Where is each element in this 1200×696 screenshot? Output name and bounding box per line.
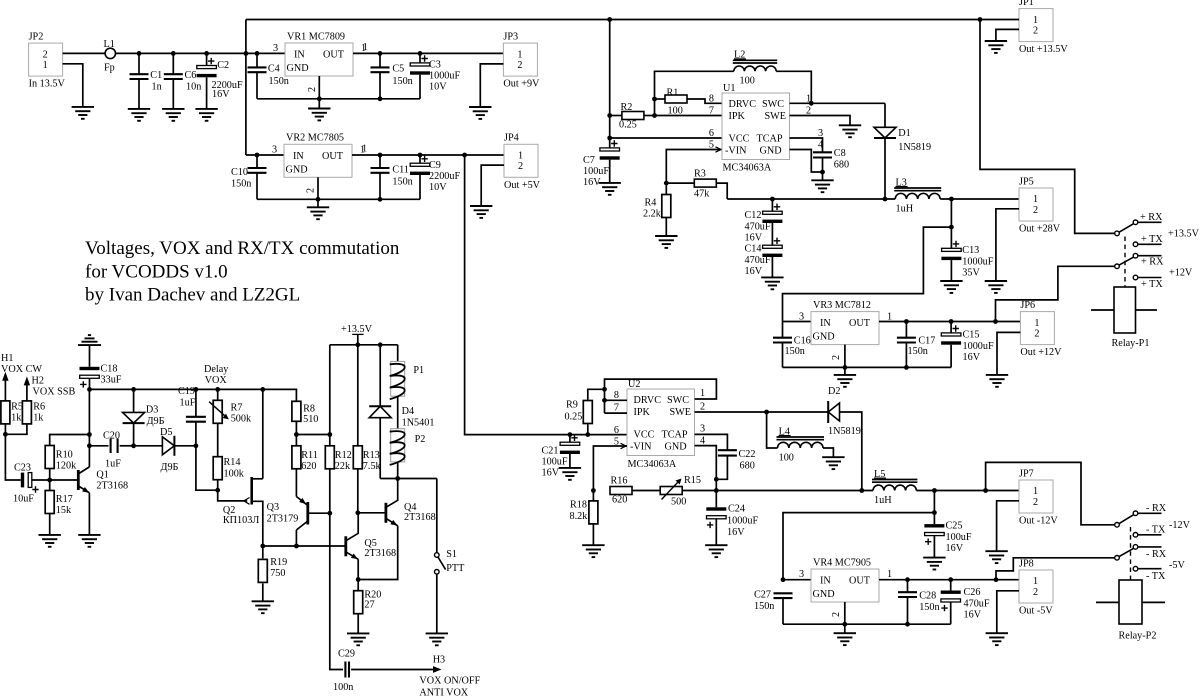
svg-text:КП103Л: КП103Л: [223, 515, 259, 526]
svg-text:Д9Б: Д9Б: [147, 416, 165, 427]
svg-text:16V: 16V: [964, 610, 982, 621]
svg-text:C13: C13: [962, 245, 979, 256]
svg-text:10V: 10V: [429, 182, 447, 193]
wire +13.5V VOX bar: [330, 344, 398, 346]
wire D5 node down: [196, 446, 218, 490]
svg-text:In 13.5V: In 13.5V: [29, 79, 66, 90]
wire D5 to node: [174, 445, 196, 447]
svg-text:Fp: Fp: [104, 63, 115, 74]
svg-text:SWE: SWE: [670, 407, 692, 418]
svg-text:IN: IN: [820, 318, 831, 329]
connector JP8: [1019, 558, 1053, 616]
svg-text:DRVC: DRVC: [729, 99, 757, 110]
capacitor C19 1uF: [178, 386, 206, 446]
svg-text:500k: 500k: [231, 414, 252, 425]
wire R16-R15: [632, 490, 660, 492]
wire +13.5V feed to switch: [980, 20, 1115, 234]
svg-text:1uH: 1uH: [874, 495, 892, 506]
svg-text:IPK: IPK: [634, 407, 651, 418]
svg-text:-VIN: -VIN: [630, 442, 652, 453]
capacitor C15 1000uF 16V: [941, 322, 994, 368]
wire C23 to Q1 base: [32, 479, 50, 481]
svg-text:DRVC: DRVC: [634, 395, 662, 406]
svg-text:C7: C7: [583, 155, 595, 166]
label - RX 4: [1146, 549, 1167, 560]
capacitor C12 470uF 16V: [745, 199, 783, 244]
svg-text:R1: R1: [667, 87, 679, 98]
svg-text:D2: D2: [828, 386, 840, 397]
capacitor C21 100uF 16V: [542, 435, 580, 479]
svg-text:Relay-P2: Relay-P2: [1119, 631, 1157, 642]
svg-text:JP5: JP5: [1019, 176, 1034, 187]
ground SWE U1: [839, 125, 861, 137]
ground C6: [162, 109, 184, 121]
wire +13.5V VOX stem: [357, 334, 359, 344]
svg-text:C21: C21: [542, 446, 559, 457]
wire VR3 pin2 gnd: [831, 345, 845, 375]
svg-text:VR4 MC7905: VR4 MC7905: [813, 557, 871, 568]
svg-text:R17: R17: [56, 494, 73, 505]
svg-text:10V: 10V: [429, 82, 447, 93]
svg-text:500: 500: [671, 497, 686, 508]
pin 1 label VR1: [363, 42, 368, 53]
label +13.5V: [1168, 229, 1200, 240]
svg-text:2: 2: [43, 49, 48, 60]
wire VR3 out +12V: [879, 321, 1020, 323]
resistor R3 47k: [666, 169, 727, 200]
resistor R19 750: [258, 546, 287, 601]
wire U2 pin4 GND: [695, 446, 717, 491]
wire JP6 pin2 to ground: [997, 332, 1020, 375]
resistor R13 7.5k: [353, 345, 381, 513]
svg-text:C19: C19: [178, 386, 195, 397]
label + RX 1: [1140, 212, 1163, 223]
ground R19: [252, 601, 274, 613]
svg-text:GND: GND: [760, 146, 782, 157]
ground L4: [822, 457, 844, 469]
diode D3 D9B: [123, 389, 165, 445]
svg-text:VOX ON/OFF: VOX ON/OFF: [419, 676, 480, 687]
svg-text:C3: C3: [429, 60, 441, 71]
capacitor C17 150n: [897, 322, 935, 368]
wire -12V rail right: [916, 490, 1019, 492]
svg-text:MC34063A: MC34063A: [628, 459, 677, 470]
svg-text:VOX SSB: VOX SSB: [33, 387, 76, 398]
wire VR2 input: [246, 154, 284, 156]
label - TX 4: [1146, 571, 1166, 582]
svg-text:-VIN: -VIN: [725, 146, 747, 157]
svg-text:470uF: 470uF: [745, 255, 771, 266]
svg-text:33uF: 33uF: [101, 374, 122, 385]
wire VCC pin6: [610, 137, 722, 139]
svg-text:OUT: OUT: [323, 50, 345, 61]
svg-text:R16: R16: [611, 476, 628, 487]
wire -12V rail: [682, 490, 873, 492]
relay coil P1: [390, 345, 424, 429]
connector JP4: [504, 133, 541, 191]
svg-text:C11: C11: [392, 164, 409, 175]
svg-text:C5: C5: [392, 64, 404, 75]
svg-text:PTT: PTT: [446, 563, 465, 574]
svg-text:C28: C28: [919, 591, 936, 602]
wire R8 to +13.5V riser: [296, 434, 329, 436]
wire SWC pin1: [790, 102, 886, 104]
pin labels U1 right: [806, 93, 823, 150]
svg-text:1uF: 1uF: [180, 397, 196, 408]
svg-text:for VCODDS v1.0: for VCODDS v1.0: [85, 262, 228, 283]
svg-text:150n: 150n: [231, 179, 251, 190]
svg-text:C26: C26: [964, 587, 981, 598]
capacitor C22 680: [716, 449, 755, 480]
svg-text:100: 100: [740, 76, 755, 87]
resistor R20 27: [354, 580, 382, 634]
svg-text:C10: C10: [231, 167, 248, 178]
connector JP6: [1020, 300, 1062, 358]
capacitor C1 1n: [130, 53, 163, 109]
wire U2 pin3 TCAP: [695, 434, 728, 450]
wire P2 bottom node: [380, 478, 437, 480]
regulator VR1 MC7809: [273, 31, 366, 76]
capacitor C9 2200uF 10V: [410, 155, 460, 199]
svg-text:- RX: - RX: [1146, 503, 1167, 514]
wire Q4 base: [358, 512, 386, 514]
regulator VR2 MC7805: [272, 133, 365, 178]
svg-text:D4: D4: [402, 406, 414, 417]
svg-text:6: 6: [709, 128, 714, 139]
pin labels U1 left: [709, 93, 714, 150]
svg-text:1N5819: 1N5819: [828, 426, 861, 437]
svg-text:620: 620: [612, 495, 627, 506]
diode D2 1N5819: [828, 386, 861, 437]
capacitor C4 150n: [248, 53, 289, 98]
svg-text:150n: 150n: [269, 76, 289, 87]
resistor R16 620: [610, 476, 632, 506]
svg-text:R6: R6: [33, 402, 45, 413]
resistor R6 1k: [22, 401, 45, 424]
label -12V: [1169, 520, 1191, 531]
svg-text:470uF: 470uF: [745, 222, 771, 233]
svg-text:6: 6: [614, 425, 619, 436]
svg-text:2: 2: [700, 401, 705, 412]
connector JP3: [503, 32, 540, 90]
transistor Q4 2T3168: [358, 479, 436, 580]
svg-text:C2: C2: [217, 60, 229, 71]
svg-text:100n: 100n: [333, 682, 353, 693]
svg-text:SWC: SWC: [667, 395, 689, 406]
label - RX 3: [1146, 503, 1167, 514]
svg-text:H3: H3: [433, 655, 445, 666]
svg-text:10n: 10n: [186, 82, 201, 93]
svg-text:1: 1: [700, 388, 705, 399]
svg-text:0.25: 0.25: [619, 120, 637, 131]
svg-text:16V: 16V: [212, 89, 230, 100]
svg-text:1: 1: [518, 151, 523, 162]
svg-text:C12: C12: [745, 210, 762, 221]
ground S1: [426, 633, 448, 645]
wire +13.5V rail: [116, 52, 286, 54]
connector JP1: [1019, 0, 1068, 55]
svg-text:16V: 16V: [745, 233, 763, 244]
resistor R18 8.2k: [570, 491, 598, 546]
svg-text:Out +9V: Out +9V: [503, 79, 540, 90]
svg-text:1: 1: [1033, 576, 1038, 587]
svg-text:VR3 MC7812: VR3 MC7812: [813, 300, 871, 311]
svg-text:IN: IN: [820, 576, 831, 587]
svg-text:1: 1: [1033, 486, 1038, 497]
svg-text:16V: 16V: [542, 468, 560, 479]
ground JP8: [986, 633, 1008, 645]
transistor Q2 KP103L: [223, 477, 263, 546]
svg-text:4: 4: [700, 435, 705, 446]
wire U2 SWE pin2: [695, 411, 829, 413]
svg-text:C14: C14: [745, 244, 762, 255]
svg-text:1uH: 1uH: [896, 203, 914, 214]
wire -12V feed to switch: [986, 462, 1115, 524]
svg-text:1000uF: 1000uF: [962, 256, 993, 267]
svg-text:Out +28V: Out +28V: [1019, 224, 1061, 235]
svg-text:R7: R7: [231, 403, 243, 414]
svg-text:1000uF: 1000uF: [727, 516, 758, 527]
inductor L5 1uH: [872, 469, 917, 506]
capacitor C20 1uF: [89, 430, 133, 469]
svg-text:16V: 16V: [963, 352, 981, 363]
input H1 VOX CW: [1, 353, 42, 401]
svg-text:750: 750: [270, 568, 285, 579]
svg-text:16V: 16V: [946, 543, 964, 554]
svg-text:15k: 15k: [56, 505, 72, 516]
svg-text:C6: C6: [185, 70, 197, 81]
svg-text:1: 1: [43, 60, 48, 71]
ground R20: [347, 633, 369, 645]
wire -5V feed to switch: [996, 558, 1115, 580]
wire U2 pin8 stub: [605, 399, 628, 401]
ground C2: [195, 109, 217, 121]
svg-text:3: 3: [273, 43, 278, 54]
regulator VR3 MC7812: [799, 300, 892, 345]
wire VR1 ground rail: [257, 98, 420, 100]
svg-text:SWE: SWE: [765, 111, 787, 122]
svg-text:C1: C1: [150, 70, 162, 81]
resistor R8 510: [292, 401, 318, 434]
svg-text:VR2 MC7805: VR2 MC7805: [286, 133, 344, 144]
svg-text:1: 1: [517, 49, 522, 60]
svg-text:3: 3: [799, 312, 804, 323]
wire +5V feed to U2: [465, 155, 627, 435]
svg-text:35V: 35V: [962, 267, 980, 278]
svg-text:2: 2: [518, 161, 523, 172]
wire GND pin4: [790, 150, 823, 173]
svg-text:2: 2: [831, 355, 842, 360]
inductor L3 1uH: [894, 177, 941, 214]
svg-text:IN: IN: [294, 50, 305, 61]
ground C13: [940, 281, 962, 293]
svg-text:1: 1: [1033, 15, 1038, 26]
capacitor C18 33uF: [80, 345, 122, 389]
svg-text:680: 680: [740, 460, 755, 471]
svg-text:Q1: Q1: [96, 469, 108, 480]
svg-text:H2: H2: [32, 376, 44, 387]
svg-text:P1: P1: [413, 365, 424, 376]
svg-text:1N5819: 1N5819: [898, 142, 931, 153]
capacitor C7 100uF 16V: [583, 140, 620, 188]
wire JP8 pin2 to ground: [997, 591, 1019, 633]
relay coil P2: [390, 429, 426, 479]
capacitor C13 1000uF 35V: [941, 199, 993, 281]
svg-text:- RX: - RX: [1146, 549, 1167, 560]
wire VR2 out +5V: [352, 154, 504, 156]
output H3: [351, 655, 480, 696]
ground JP2: [72, 107, 94, 119]
svg-text:- TX: - TX: [1146, 571, 1166, 582]
switch +12V RX/TX: [1115, 253, 1162, 279]
svg-text:C18: C18: [101, 363, 118, 374]
svg-text:OUT: OUT: [322, 151, 344, 162]
svg-text:2200uF: 2200uF: [429, 171, 460, 182]
title text: [85, 238, 400, 306]
svg-text:C15: C15: [963, 329, 980, 340]
IC U2 MC34063A: [627, 379, 695, 470]
wire L2 left branch: [655, 71, 734, 115]
relay Relay-P2: [1096, 580, 1165, 642]
svg-text:H1: H1: [1, 353, 13, 364]
svg-text:U2: U2: [628, 379, 640, 390]
ground C21: [559, 468, 581, 480]
svg-text:-5V: -5V: [1169, 560, 1185, 571]
svg-text:510: 510: [303, 414, 318, 425]
svg-text:R11: R11: [301, 450, 318, 461]
svg-text:1N5401: 1N5401: [402, 418, 435, 429]
svg-text:+12V: +12V: [1169, 268, 1193, 279]
resistor R1 100: [655, 87, 723, 116]
svg-text:JP6: JP6: [1020, 300, 1035, 311]
capacitor C14 470uF 16V: [745, 223, 783, 277]
wire VR2 ground rail: [257, 198, 420, 200]
svg-text:- TX: - TX: [1146, 525, 1166, 536]
svg-text:C27: C27: [754, 590, 771, 601]
svg-text:470uF: 470uF: [964, 599, 990, 610]
wire branch vertical to top rail and VR2: [245, 20, 247, 156]
svg-text:C17: C17: [918, 335, 935, 346]
svg-text:R14: R14: [224, 457, 241, 468]
resistor R10 120k: [45, 435, 89, 481]
svg-text:R10: R10: [56, 450, 73, 461]
svg-text:2: 2: [1033, 205, 1038, 216]
svg-text:VOX: VOX: [205, 375, 228, 386]
svg-text:TCAP: TCAP: [757, 134, 783, 145]
wire R12 bottom to C29: [330, 468, 343, 669]
capacitor C16 150n: [773, 322, 811, 368]
wire VR4 pin2 gnd: [831, 602, 845, 633]
ground VR2: [307, 207, 329, 219]
svg-text:27: 27: [364, 600, 374, 611]
ground R4: [655, 236, 677, 248]
svg-text:D1: D1: [898, 128, 910, 139]
svg-text:VOX CW: VOX CW: [1, 364, 42, 375]
wire IPK pin7: [655, 115, 723, 117]
wire VR2 pin2 gnd: [306, 177, 319, 207]
svg-text:C25: C25: [946, 521, 963, 532]
svg-text:R13: R13: [363, 450, 380, 461]
wire JP1 pin2 to ground: [996, 29, 1019, 41]
svg-text:Out +5V: Out +5V: [504, 180, 541, 191]
svg-text:2: 2: [1033, 497, 1038, 508]
wire JP7 pin2 to ground: [997, 501, 1019, 551]
ground VR1: [308, 109, 330, 121]
ground VR3: [834, 375, 856, 387]
svg-text:IN: IN: [293, 151, 304, 162]
svg-text:1000uF: 1000uF: [963, 341, 994, 352]
IC U1 MC34063A: [722, 83, 790, 173]
svg-text:2: 2: [306, 188, 317, 193]
svg-text:JP8: JP8: [1019, 558, 1034, 569]
resistor R15 500 variable: [660, 475, 701, 508]
ground C8: [811, 180, 833, 192]
svg-text:150n: 150n: [785, 346, 805, 357]
wire VR4 input: [783, 579, 811, 581]
wire U2 pin5: [593, 443, 627, 490]
pin 1 label VR2: [362, 144, 367, 155]
wire JP3 pin2 to ground: [480, 64, 503, 107]
ground R18: [582, 545, 604, 557]
svg-text:2: 2: [1034, 328, 1039, 339]
connector JP2: [29, 32, 66, 90]
svg-text:150n: 150n: [392, 177, 412, 188]
svg-text:C8: C8: [834, 148, 846, 159]
svg-text:L1: L1: [104, 39, 115, 50]
svg-text:JP1: JP1: [1019, 0, 1034, 8]
ground JP3: [469, 107, 491, 119]
dashed link relay P1: [1124, 237, 1126, 288]
svg-text:JP7: JP7: [1019, 468, 1034, 479]
svg-text:C9: C9: [429, 160, 441, 171]
inductor L2 100: [733, 50, 777, 87]
svg-text:2T3168: 2T3168: [364, 548, 396, 559]
wire +28V rail: [727, 198, 895, 200]
resistor R7 500k variable: [209, 389, 252, 456]
label +13.5V VOX: [341, 324, 373, 335]
ground C1: [128, 109, 150, 121]
wire to C23: [5, 424, 20, 480]
capacitor C10 150n: [231, 155, 267, 199]
svg-text:R15: R15: [684, 475, 701, 486]
wire +12V feed to switch: [996, 266, 1115, 321]
svg-text:2T3168: 2T3168: [96, 480, 128, 491]
svg-text:3: 3: [799, 569, 804, 580]
capacitor C3 1000uF 10V: [410, 53, 460, 98]
svg-text:3: 3: [700, 424, 705, 435]
svg-text:Relay-P1: Relay-P1: [1112, 338, 1150, 349]
svg-text:Out +12V: Out +12V: [1020, 347, 1062, 358]
ground C7: [599, 183, 621, 195]
ground VR4: [834, 633, 856, 645]
svg-text:2: 2: [1033, 25, 1038, 36]
ground JP6: [986, 375, 1008, 387]
svg-text:150n: 150n: [919, 602, 939, 613]
svg-text:8.2k: 8.2k: [570, 511, 589, 522]
wire VR4 out -5V: [879, 579, 1019, 581]
svg-text:2: 2: [1033, 587, 1038, 598]
ground JP5: [985, 281, 1007, 293]
wire top 13.5V rail: [246, 19, 980, 21]
resistor R9 0.25: [565, 389, 605, 434]
wire U2 SWC-DRVC loop: [605, 379, 717, 413]
wire JP2 pin1 to ground: [63, 64, 83, 107]
svg-text:1: 1: [363, 42, 368, 53]
capacitor C29 100n: [333, 649, 355, 693]
dashed link relay P2: [1130, 527, 1132, 580]
resistor R12 22k: [325, 446, 351, 472]
wire VR1 out +9V: [353, 52, 504, 54]
